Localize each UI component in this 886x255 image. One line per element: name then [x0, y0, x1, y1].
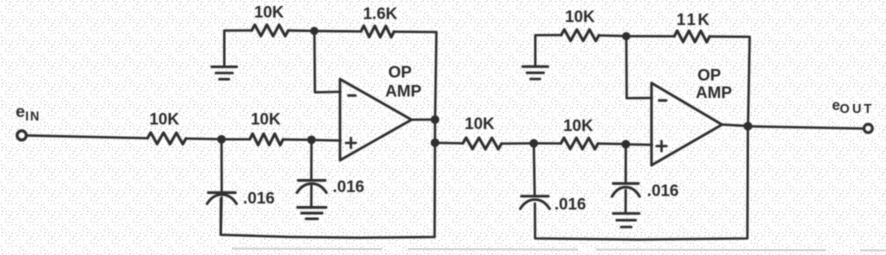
resistor R6 10K — [561, 138, 598, 149]
wire ground G1 up and to R3 — [224, 30, 251, 66]
op-amp U2 minus mark — [659, 99, 666, 102]
node D output U2 — [744, 122, 753, 131]
wire node2 down to C2 — [310, 140, 313, 180]
op-amp U2 plus mark — [657, 145, 667, 147]
wire node3 to R4 — [314, 30, 361, 33]
svg-text:10K: 10K — [251, 110, 281, 128]
wire R4 to output column top — [394, 32, 436, 120]
svg-text:.016: .016 — [333, 178, 365, 196]
node C — [622, 32, 630, 40]
wire C4 to ground — [624, 190, 627, 213]
node 5 interstage tap — [431, 138, 440, 147]
svg-text:.016: .016 — [243, 190, 275, 208]
input terminal e_IN — [17, 131, 26, 140]
node A — [530, 139, 539, 148]
svg-text:10K: 10K — [563, 117, 593, 135]
capacitor C2 .016 — [298, 179, 325, 182]
node B — [622, 140, 631, 149]
wire node1 to R2 — [222, 138, 250, 140]
node 2 — [307, 136, 316, 145]
svg-text:10K: 10K — [465, 115, 495, 133]
svg-text:10K: 10K — [565, 8, 595, 26]
ground G2 — [298, 206, 327, 209]
wire nodeB down to C4 — [625, 144, 627, 183]
op-amp U1 minus mark — [348, 94, 355, 97]
wire output column 2 down to bottom loop — [535, 126, 748, 240]
wire node2 to op-amp + input — [312, 139, 341, 142]
wire output column — [434, 120, 436, 143]
ground G1 — [212, 66, 237, 69]
svg-text:IN: IN — [25, 109, 40, 123]
wire U2 output stub — [722, 125, 748, 126]
resistor R8 11K — [674, 31, 709, 42]
output terminal e_OUT — [864, 124, 872, 132]
svg-text:AMP: AMP — [696, 84, 732, 102]
wire output column down to bottom loop — [221, 143, 435, 238]
wire U2 output to e_OUT — [748, 126, 864, 128]
resistor R4 1.6K — [361, 26, 394, 37]
node 3 — [310, 27, 318, 35]
wire R8 to output column top — [710, 37, 750, 126]
wire R1 to node1 — [186, 137, 222, 140]
scan streak — [232, 249, 886, 251]
wire ground G3 up and to R7 — [535, 35, 561, 67]
op-amp U1 — [340, 79, 412, 160]
svg-text:e: e — [16, 102, 25, 121]
wire nodeA to R6 — [534, 142, 561, 144]
capacitor C1 .016 — [208, 191, 235, 194]
wire node5 to R5 — [435, 142, 463, 145]
capacitor C4 .016 — [613, 182, 638, 185]
wire nodeC to R8 — [626, 35, 674, 37]
resistor R1 10K — [148, 133, 187, 145]
op-amp U2 — [652, 83, 723, 165]
resistor R5 10K — [463, 138, 502, 150]
resistor R2 10K — [250, 134, 283, 145]
wire U1 output stub — [412, 118, 436, 120]
wire R5 to node A — [502, 142, 534, 145]
svg-text:OUT: OUT — [840, 102, 874, 116]
wire node1 down to C1 — [220, 139, 223, 192]
node 1 — [217, 135, 226, 144]
svg-text:OP: OP — [698, 66, 722, 84]
svg-text:10K: 10K — [254, 4, 284, 22]
ground G3 — [523, 65, 548, 68]
svg-text:10K: 10K — [149, 110, 179, 128]
ground G4 — [613, 212, 639, 215]
wire R3 to node3 — [288, 29, 314, 32]
capacitor C3 .016 — [522, 195, 549, 198]
wire R6 to node B — [598, 142, 626, 145]
wire C2 to ground — [310, 186, 313, 208]
wire nodeB to op-amp + input — [626, 143, 652, 146]
svg-text:OP: OP — [388, 64, 412, 82]
wire C1 to bottom loop — [220, 198, 223, 235]
svg-text:1.6K: 1.6K — [363, 5, 398, 23]
node 4 output U1 — [431, 115, 440, 124]
svg-text:AMP: AMP — [385, 83, 421, 101]
resistor R3 10K — [252, 25, 289, 36]
svg-text:.016: .016 — [647, 182, 679, 200]
resistor R7 10K — [561, 30, 599, 41]
svg-text:11K: 11K — [677, 11, 712, 29]
wire R2 to node2 — [283, 138, 312, 141]
label e_IN — [16, 102, 41, 123]
wire nodeA down to C3 — [533, 143, 536, 196]
wire input to R1 — [28, 136, 148, 139]
wire nodeC down to - input — [626, 36, 652, 98]
wire node3 down to - input — [314, 31, 340, 92]
op-amp U1 plus mark — [346, 142, 356, 144]
label e_OUT — [832, 98, 874, 116]
wire R7 to node C — [599, 34, 626, 37]
svg-text:.016: .016 — [554, 196, 586, 214]
